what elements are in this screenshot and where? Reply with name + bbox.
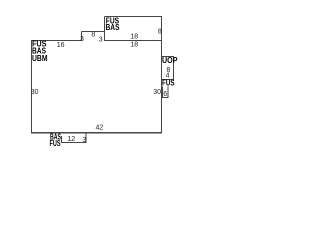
wire stoop right vertical — [85, 133, 87, 144]
wire bump left vertical — [104, 17, 106, 42]
svg-text:8: 8 — [91, 32, 95, 39]
svg-text:4: 4 — [166, 72, 170, 79]
wire bump top — [105, 16, 163, 18]
svg-text:BAS: BAS — [106, 23, 121, 32]
wire bottom edge — [31, 132, 162, 134]
svg-text:6: 6 — [163, 91, 167, 98]
wire right wall — [161, 17, 163, 134]
svg-text:16: 16 — [57, 42, 65, 49]
wire left wall — [31, 41, 33, 134]
wire FUS box right — [167, 87, 169, 99]
wire FUS box left — [162, 87, 164, 99]
wire stoop bottom — [61, 142, 87, 144]
svg-text:UBM: UBM — [32, 54, 48, 63]
svg-text:UOP: UOP — [162, 56, 178, 65]
wire stoop left vertical — [61, 136, 63, 143]
svg-text:8: 8 — [158, 29, 162, 36]
svg-text:42: 42 — [96, 125, 104, 132]
svg-text:18: 18 — [130, 42, 138, 49]
svg-text:12: 12 — [67, 136, 75, 143]
wire notch left vertical — [81, 32, 83, 42]
wire notch top — [82, 31, 106, 33]
wire UOP right — [173, 57, 175, 81]
svg-text:3: 3 — [99, 37, 103, 44]
svg-text:3: 3 — [82, 137, 86, 144]
wire UOP top — [162, 56, 175, 58]
wire partition under bump — [105, 40, 162, 42]
svg-text:30: 30 — [31, 89, 39, 96]
svg-text:FUS: FUS — [50, 139, 61, 148]
svg-text:18: 18 — [130, 34, 138, 41]
svg-text:3: 3 — [80, 36, 84, 43]
wire top edge left — [31, 40, 82, 42]
wire FUS box bottom — [163, 97, 169, 99]
svg-text:FUS: FUS — [162, 79, 175, 88]
svg-text:30: 30 — [153, 89, 161, 96]
wire UOP bottom — [162, 79, 175, 81]
